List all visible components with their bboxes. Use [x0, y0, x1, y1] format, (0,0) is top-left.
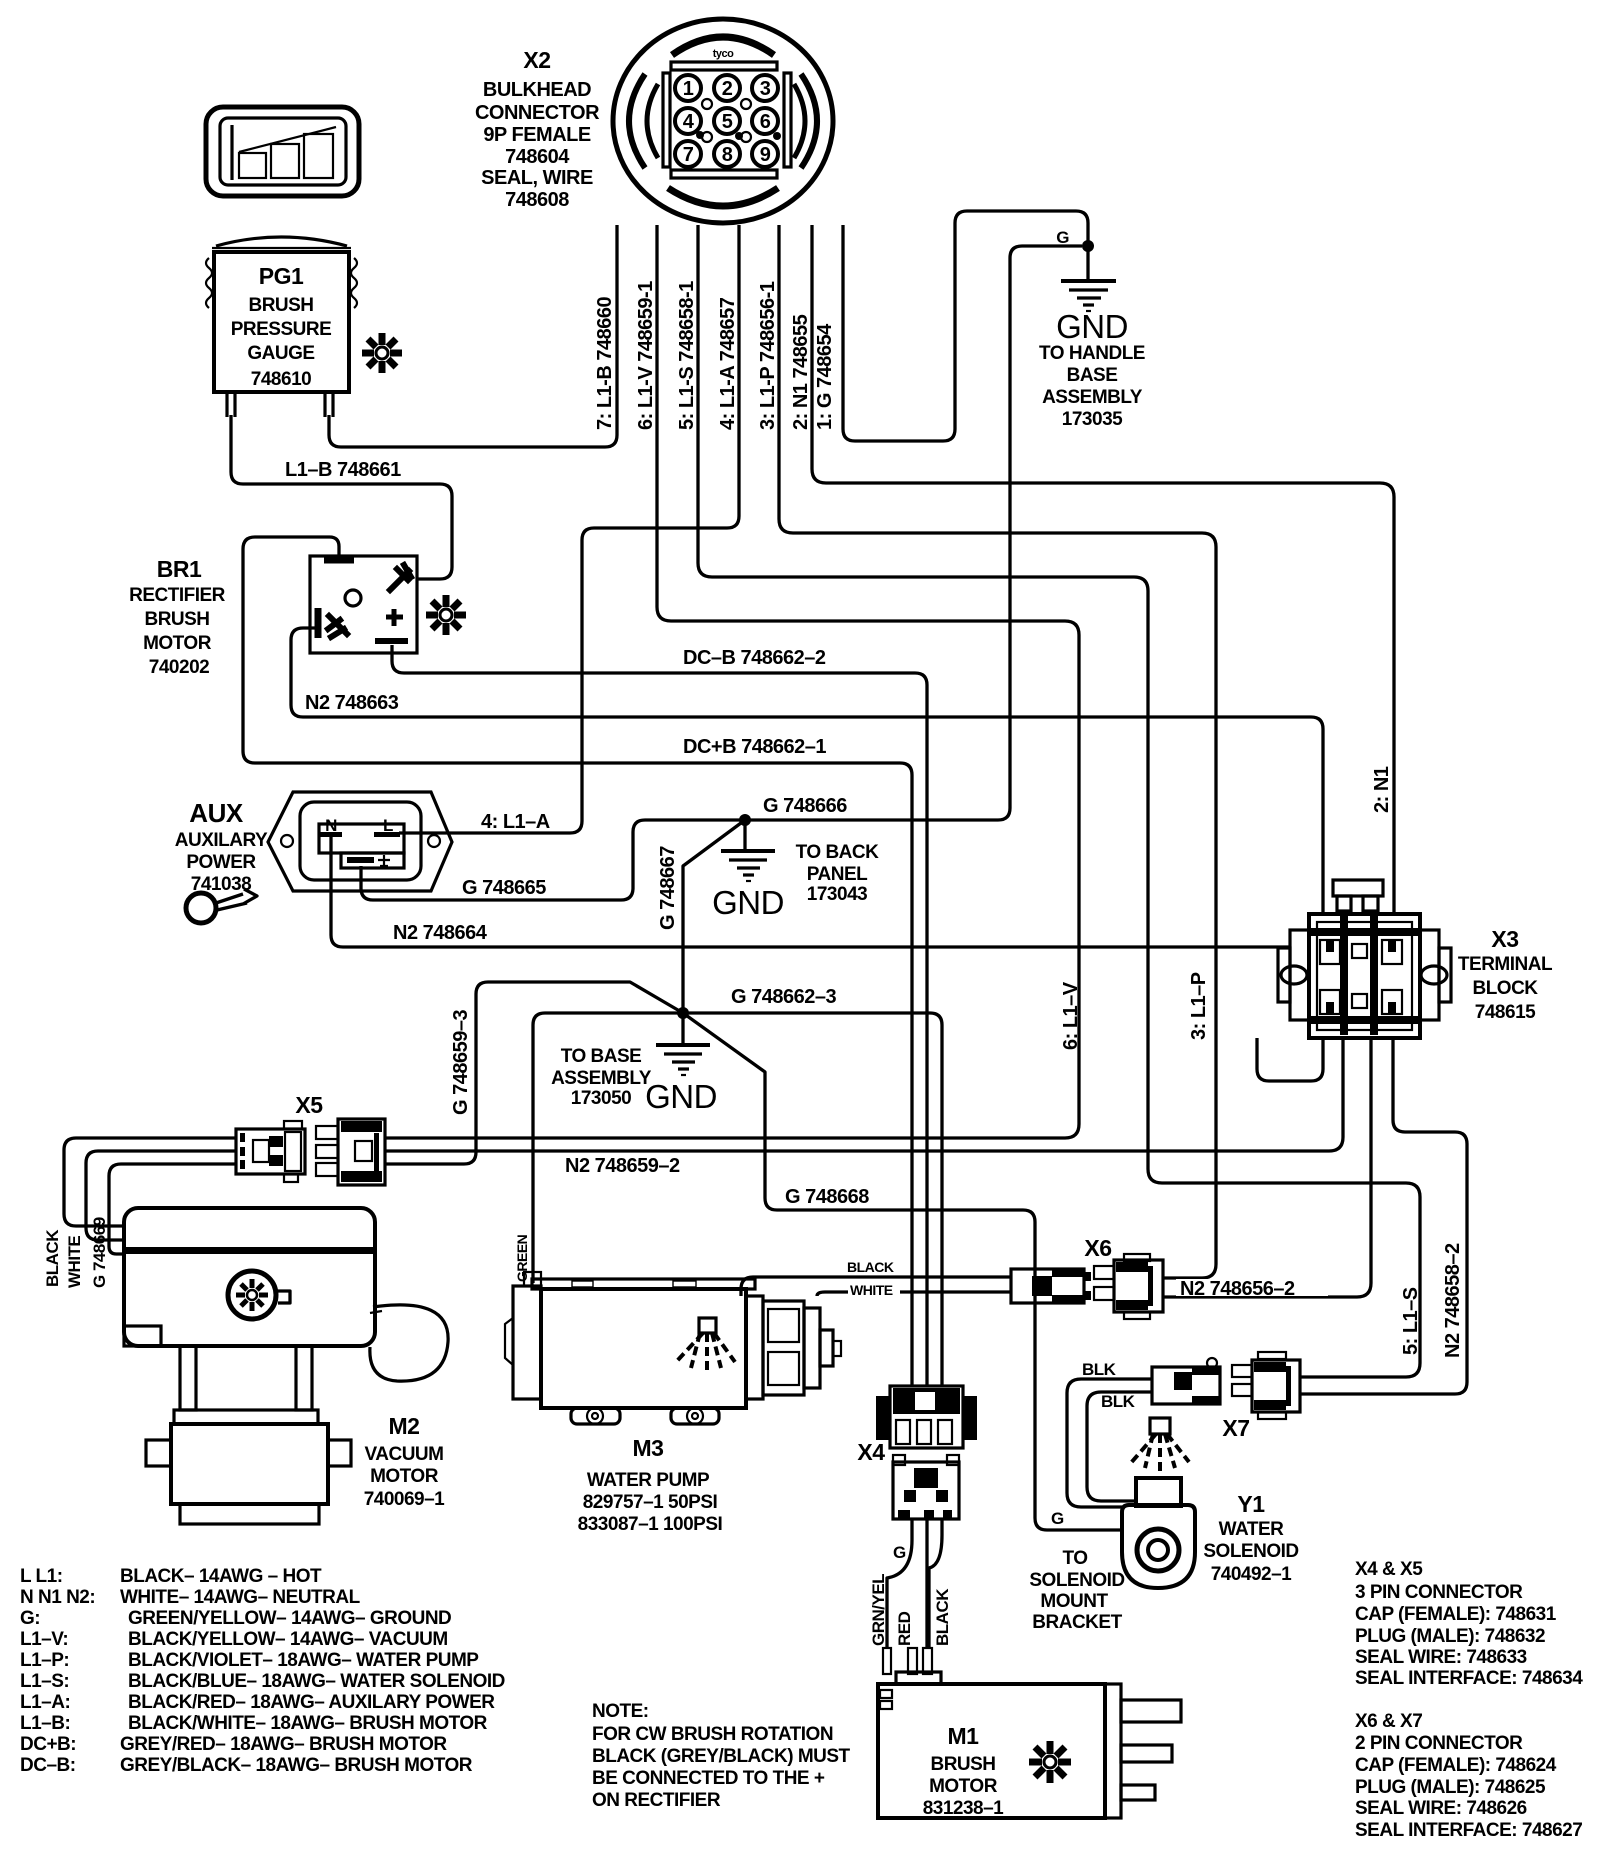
- svg-text:PLUG (MALE): 748625: PLUG (MALE): 748625: [1355, 1777, 1546, 1798]
- svg-text:N2 748663: N2 748663: [305, 692, 399, 714]
- svg-text:BLACK (GREY/BLACK) MUST: BLACK (GREY/BLACK) MUST: [592, 1746, 851, 1767]
- svg-text:3: L1–P: 3: L1–P: [1188, 972, 1210, 1040]
- svg-text:N2 748664: N2 748664: [393, 922, 488, 944]
- svg-text:BULKHEAD: BULKHEAD: [483, 79, 591, 101]
- connector X5 plug (male): [316, 1119, 385, 1185]
- svg-text:L1–A:: L1–A:: [20, 1692, 70, 1713]
- ground to base assembly: [551, 1013, 717, 1115]
- wire N2 748663 rectifier to X3: [291, 628, 1323, 914]
- connector X7 cap (female): [1152, 1358, 1250, 1441]
- node base assembly ground junction: [677, 1007, 689, 1019]
- ground to handle base assembly: [1039, 246, 1145, 430]
- wire G 748659-3 from X5 plug pin3 to base gnd junction: [385, 982, 683, 1164]
- pin 4 of X2: [675, 108, 701, 134]
- svg-text:ASSEMBLY: ASSEMBLY: [551, 1068, 652, 1089]
- svg-text:TO BASE: TO BASE: [561, 1046, 642, 1067]
- wire M2 green lead G 748669 to X5: [109, 1164, 236, 1254]
- svg-text:PG1: PG1: [259, 263, 304, 289]
- svg-text:VACUUM: VACUUM: [365, 1444, 444, 1465]
- pin 5 of X2: [714, 108, 740, 134]
- svg-text:SEAL, WIRE: SEAL, WIRE: [481, 167, 593, 189]
- svg-text:M2: M2: [389, 1413, 420, 1439]
- svg-text:BLACK/VIOLET– 18AWG– WATER: BLACK/VIOLET– 18AWG– WATER PUMP: [128, 1650, 479, 1671]
- svg-text:8: 8: [722, 144, 733, 166]
- svg-text:831238–1: 831238–1: [923, 1798, 1004, 1819]
- ring terminal icon: [186, 889, 257, 923]
- svg-text:6: L1–V: 6: L1–V: [1060, 981, 1082, 1050]
- wire jumper loop under X3: [1257, 1038, 1323, 1081]
- svg-text:DC+B 748662–1: DC+B 748662–1: [683, 736, 826, 758]
- svg-text:X3: X3: [1491, 926, 1518, 952]
- svg-text:7: 7: [683, 144, 694, 166]
- svg-text:SEAL WIRE: 748626: SEAL WIRE: 748626: [1355, 1798, 1527, 1819]
- svg-text:X5: X5: [295, 1092, 323, 1118]
- svg-text:WATER PUMP: WATER PUMP: [587, 1470, 710, 1491]
- svg-text:GND: GND: [645, 1078, 717, 1115]
- svg-text:6: 6: [760, 111, 771, 133]
- svg-text:G: G: [893, 1543, 906, 1562]
- pump M3 water pump: [505, 1272, 841, 1424]
- svg-text:GND: GND: [1056, 308, 1128, 345]
- star symbol beside PG1: [362, 333, 402, 373]
- svg-text:AUXILARY: AUXILARY: [175, 830, 268, 851]
- svg-text:N N1 N2:: N N1 N2:: [20, 1587, 95, 1608]
- svg-text:740069–1: 740069–1: [364, 1489, 445, 1510]
- connector X4 cap (female): [857, 1386, 977, 1465]
- wire G 748667 diagonal+vertical: [683, 820, 745, 1013]
- pin 1 of X2: [675, 75, 701, 101]
- svg-text:TERMINAL: TERMINAL: [1458, 954, 1553, 975]
- svg-text:MOTOR: MOTOR: [370, 1466, 439, 1487]
- svg-text:CAP (FEMALE): 748624: CAP (FEMALE): 748624: [1355, 1755, 1557, 1776]
- connector X7 plug (male): [1232, 1352, 1300, 1419]
- svg-text:BLACK: BLACK: [933, 1588, 952, 1646]
- svg-text:ON RECTIFIER: ON RECTIFIER: [592, 1790, 721, 1811]
- star symbol beside BR1: [426, 595, 466, 635]
- motor M1 brush motor: [878, 1648, 1181, 1818]
- svg-text:GREY/BLACK– 18AWG– BRUSH MO: GREY/BLACK– 18AWG– BRUSH MOTOR: [120, 1755, 473, 1776]
- legend wire color table: [20, 1566, 505, 1776]
- svg-text:M3: M3: [633, 1435, 664, 1461]
- wire 5: L1-S from X2 pin5 to X7 plug: [698, 225, 1420, 1377]
- pin 3 of X2: [752, 75, 778, 101]
- svg-text:SOLENOID: SOLENOID: [1203, 1541, 1298, 1562]
- svg-text:G 748666: G 748666: [763, 795, 847, 817]
- svg-text:NOTE:: NOTE:: [592, 1701, 649, 1722]
- svg-text:X4 & X5: X4 & X5: [1355, 1559, 1423, 1580]
- wire M2 white lead to X5: [86, 1151, 236, 1240]
- svg-text:TO: TO: [1062, 1548, 1087, 1569]
- svg-text:G 748668: G 748668: [785, 1186, 869, 1208]
- svg-text:G 748662–3: G 748662–3: [731, 986, 836, 1008]
- svg-text:748615: 748615: [1475, 1002, 1536, 1023]
- svg-text:5: 5: [722, 111, 733, 133]
- svg-text:BE CONNECTED TO THE +: BE CONNECTED TO THE +: [592, 1768, 825, 1789]
- svg-text:G 748669: G 748669: [90, 1217, 109, 1288]
- pin 6 of X2: [752, 108, 778, 134]
- wire 7: L1-B from X2 pin7 to PG1 right pin: [329, 225, 617, 447]
- ground to back panel: [712, 820, 879, 921]
- svg-text:GND: GND: [712, 884, 784, 921]
- svg-text:7: L1-B 748660: 7: L1-B 748660: [594, 297, 616, 430]
- terminal block X3: [1278, 880, 1451, 1038]
- junction dot G 748666: [739, 814, 751, 826]
- svg-text:CONNECTOR: CONNECTOR: [475, 102, 600, 124]
- svg-text:POWER: POWER: [186, 852, 256, 873]
- svg-text:CAP (FEMALE): 748631: CAP (FEMALE): 748631: [1355, 1604, 1557, 1625]
- motor M2 vacuum motor: [124, 1208, 448, 1524]
- wire 3: L1-P from X2 pin3 to X6 plug: [779, 225, 1216, 1278]
- wire BLK X7 to Y1 coil (inner): [1087, 1392, 1152, 1501]
- svg-text:MOTOR: MOTOR: [143, 633, 212, 654]
- svg-text:L1–S:: L1–S:: [20, 1671, 69, 1692]
- svg-text:SEAL INTERFACE: 748634: SEAL INTERFACE: 748634: [1355, 1668, 1583, 1689]
- svg-text:4: L1-A 748657: 4: L1-A 748657: [717, 297, 739, 430]
- svg-text:WHITE: WHITE: [65, 1236, 84, 1288]
- svg-text:TO BACK: TO BACK: [796, 842, 879, 863]
- svg-text:MOUNT: MOUNT: [1040, 1591, 1108, 1612]
- wire 6: L1-V from X2 pin6 to X5 plug pin1: [385, 225, 1079, 1138]
- svg-text:tyco: tyco: [713, 48, 734, 60]
- svg-text:2: N1 748655: 2: N1 748655: [790, 314, 812, 430]
- svg-text:748608: 748608: [505, 189, 569, 211]
- wire 1: G from X2 pin1 to handle GND junction: [843, 211, 1088, 441]
- svg-text:TO HANDLE: TO HANDLE: [1039, 343, 1145, 364]
- svg-text:PANEL: PANEL: [807, 864, 868, 885]
- svg-text:AUX: AUX: [189, 798, 244, 828]
- svg-text:BRUSH: BRUSH: [144, 609, 209, 630]
- svg-text:G:: G:: [20, 1608, 40, 1629]
- svg-text:GRN/YEL: GRN/YEL: [869, 1574, 888, 1646]
- svg-text:4: 4: [683, 111, 695, 133]
- wire N2 748664 AUX neutral to X3: [331, 837, 1290, 947]
- blower icon inside M2: [228, 1271, 290, 1319]
- svg-text:WATER: WATER: [1219, 1519, 1284, 1540]
- svg-text:M1: M1: [948, 1723, 980, 1749]
- svg-text:5: L1–S: 5: L1–S: [1400, 1287, 1422, 1355]
- svg-text:L1–P:: L1–P:: [20, 1650, 69, 1671]
- svg-text:748604: 748604: [505, 146, 570, 168]
- svg-text:BRUSH: BRUSH: [930, 1754, 995, 1775]
- svg-text:BLACK: BLACK: [847, 1259, 894, 1275]
- star symbol inside M1: [1029, 1741, 1071, 1783]
- svg-text:SEAL WIRE: 748633: SEAL WIRE: 748633: [1355, 1647, 1527, 1668]
- wire N2 748658-2 X3 to X7 plug: [1300, 1038, 1467, 1394]
- wire GRN/YEL X4 to M1: [887, 1519, 912, 1648]
- svg-text:N2 748656–2: N2 748656–2: [1180, 1278, 1295, 1300]
- wire G 748662-3 from M3 green lead to X4: [533, 1013, 942, 1386]
- svg-text:G: G: [1051, 1509, 1064, 1528]
- svg-text:GREEN/YELLOW– 14AWG– GROUND: GREEN/YELLOW– 14AWG– GROUND: [128, 1608, 451, 1629]
- svg-text:BLOCK: BLOCK: [1472, 978, 1538, 999]
- connector parts list X6 X7: [1355, 1711, 1582, 1841]
- connector X2 9P female face: [613, 19, 833, 223]
- svg-text:DC–B 748662–2: DC–B 748662–2: [683, 647, 826, 669]
- svg-text:G: G: [1056, 228, 1069, 247]
- svg-text:3 PIN CONNECTOR: 3 PIN CONNECTOR: [1355, 1582, 1523, 1603]
- gauge display icon: [206, 107, 359, 196]
- svg-text:X6: X6: [1084, 1235, 1111, 1261]
- svg-text:WHITE: WHITE: [850, 1282, 893, 1298]
- wire DC+B 748662-1 rectifier to X4: [243, 537, 912, 1386]
- X2 bulkhead connector label: [475, 47, 600, 211]
- svg-text:2 PIN CONNECTOR: 2 PIN CONNECTOR: [1355, 1733, 1523, 1754]
- svg-text:DC+B:: DC+B:: [20, 1734, 76, 1755]
- wire M3 white lead to X6: [817, 1292, 1011, 1296]
- connector X6 plug (male): [1094, 1254, 1163, 1319]
- wire N2 748659-2 X5 plug pin2 to X3: [385, 1038, 1343, 1151]
- pin 8 of X2: [714, 141, 740, 167]
- pin 7 of X2: [675, 141, 701, 167]
- svg-text:BRUSH: BRUSH: [248, 295, 313, 316]
- svg-text:FOR CW BRUSH ROTATION: FOR CW BRUSH ROTATION: [592, 1724, 833, 1745]
- svg-text:173050: 173050: [571, 1088, 631, 1109]
- svg-text:BLK: BLK: [1082, 1360, 1117, 1379]
- svg-text:GAUGE: GAUGE: [247, 343, 314, 364]
- pin 2 of X2: [714, 75, 740, 101]
- svg-text:GREEN: GREEN: [514, 1234, 530, 1282]
- svg-text:740202: 740202: [149, 657, 209, 678]
- svg-text:2: 2: [722, 78, 733, 100]
- node G junction at handle gnd: [1082, 240, 1094, 252]
- svg-text:173035: 173035: [1062, 409, 1123, 430]
- svg-text:X7: X7: [1222, 1415, 1249, 1441]
- svg-text:BLACK/WHITE– 18AWG– BRUSH M: BLACK/WHITE– 18AWG– BRUSH MOTOR: [128, 1713, 488, 1734]
- svg-text:X4: X4: [857, 1439, 885, 1465]
- svg-text:G 748665: G 748665: [462, 877, 546, 899]
- svg-text:DC–B:: DC–B:: [20, 1755, 76, 1776]
- wire N2 748656-2 X3 to X6 plug: [1163, 1038, 1371, 1297]
- svg-text:MOTOR: MOTOR: [929, 1776, 998, 1797]
- svg-text:G 748667: G 748667: [657, 846, 679, 930]
- svg-text:1: G 748654: 1: G 748654: [814, 323, 836, 430]
- svg-text:833087–1 100PSI: 833087–1 100PSI: [578, 1514, 723, 1535]
- wire BLK X7 to Y1 coil (outer): [1067, 1379, 1152, 1507]
- connector AUX auxiliary power inlet: [268, 792, 452, 891]
- svg-text:L1–B:: L1–B:: [20, 1713, 70, 1734]
- wire L1-B 748661 PG1 left pin to rectifier BR1: [231, 415, 452, 579]
- svg-text:3: 3: [760, 78, 771, 100]
- svg-text:GREY/RED– 18AWG– BRUSH MOTO: GREY/RED– 18AWG– BRUSH MOTOR: [120, 1734, 447, 1755]
- svg-text:RED: RED: [895, 1611, 914, 1646]
- svg-text:748610: 748610: [251, 369, 311, 390]
- svg-text:BLK: BLK: [1101, 1392, 1136, 1411]
- svg-text:BLACK– 14AWG – HOT: BLACK– 14AWG – HOT: [120, 1566, 322, 1587]
- rectifier BR1 brush motor: [310, 556, 417, 653]
- svg-text:BLACK/BLUE– 18AWG– WATER SO: BLACK/BLUE– 18AWG– WATER SOLENOID: [128, 1671, 505, 1692]
- svg-text:N2 748658–2: N2 748658–2: [1442, 1243, 1464, 1358]
- svg-text:X6 & X7: X6 & X7: [1355, 1711, 1422, 1732]
- svg-text:SEAL INTERFACE: 748627: SEAL INTERFACE: 748627: [1355, 1820, 1582, 1841]
- note CW brush rotation: [592, 1701, 851, 1811]
- wire M2 black lead to X5: [64, 1138, 236, 1226]
- svg-text:ASSEMBLY: ASSEMBLY: [1042, 387, 1143, 408]
- gauge PG1 brush pressure gauge: [206, 237, 357, 417]
- svg-text:Y1: Y1: [1237, 1491, 1265, 1517]
- wire G net from AUX ground pin to handle GND (G 748665 / G 748666): [361, 246, 1082, 900]
- wire RED X4 to M1: [925, 1519, 928, 1648]
- svg-text:L1–B 748661: L1–B 748661: [285, 459, 401, 481]
- svg-text:X2: X2: [523, 47, 550, 73]
- connector X4 plug (male): [893, 1455, 959, 1519]
- wire DC-B 748662-2 rectifier to X4: [392, 645, 927, 1386]
- svg-text:1: 1: [683, 78, 694, 100]
- svg-text:BLACK/YELLOW– 14AWG– VACUUM: BLACK/YELLOW– 14AWG– VACUUM: [128, 1629, 448, 1650]
- svg-text:BLACK: BLACK: [43, 1229, 62, 1287]
- wire BLACK X4 to M1: [929, 1519, 942, 1648]
- svg-text:PLUG (MALE): 748632: PLUG (MALE): 748632: [1355, 1626, 1545, 1647]
- svg-text:N2 748659–2: N2 748659–2: [565, 1155, 680, 1177]
- svg-text:4: L1–A: 4: L1–A: [481, 811, 550, 833]
- svg-text:6: L1-V 748659-1: 6: L1-V 748659-1: [635, 281, 657, 430]
- svg-text:BR1: BR1: [157, 556, 202, 582]
- svg-text:173043: 173043: [807, 884, 867, 905]
- connector X5 cap (female): [236, 1092, 323, 1182]
- connector X6 cap (female): [1011, 1235, 1112, 1303]
- svg-text:L L1:: L L1:: [20, 1566, 63, 1587]
- svg-text:3: L1-P 748656-1: 3: L1-P 748656-1: [757, 281, 779, 430]
- pin 9 of X2: [752, 141, 778, 167]
- svg-text:9: 9: [760, 144, 771, 166]
- svg-text:RECTIFIER: RECTIFIER: [129, 585, 226, 606]
- svg-text:BRACKET: BRACKET: [1032, 1612, 1122, 1633]
- svg-text:WHITE– 14AWG– NEUTRAL: WHITE– 14AWG– NEUTRAL: [120, 1587, 361, 1608]
- svg-text:G 748659–3: G 748659–3: [450, 1010, 472, 1115]
- svg-text:829757–1 50PSI: 829757–1 50PSI: [583, 1492, 718, 1513]
- svg-text:5: L1-S 748658-1: 5: L1-S 748658-1: [676, 281, 698, 430]
- svg-text:SOLENOID: SOLENOID: [1029, 1570, 1124, 1591]
- wire 2: N1 from X2 pin2 to X3 terminal block: [812, 225, 1394, 914]
- solenoid Y1 water solenoid: [1122, 1418, 1195, 1588]
- svg-text:9P FEMALE: 9P FEMALE: [483, 124, 591, 146]
- wire G 748668 from base gnd junction to Y1: [683, 1013, 1122, 1530]
- svg-text:2: N1: 2: N1: [1371, 766, 1393, 813]
- svg-text:PRESSURE: PRESSURE: [231, 319, 332, 340]
- spray icon inside M3: [676, 1318, 735, 1372]
- svg-text:740492–1: 740492–1: [1211, 1564, 1292, 1585]
- wire M3 black lead to X6: [741, 1277, 1011, 1296]
- wire 4: L1-A from X2 pin4 to AUX L terminal: [399, 225, 739, 833]
- svg-text:BLACK/RED– 18AWG– AUXILARY: BLACK/RED– 18AWG– AUXILARY POWER: [128, 1692, 495, 1713]
- connector parts list X4 X5: [1355, 1559, 1583, 1689]
- svg-text:BASE: BASE: [1067, 365, 1118, 386]
- svg-text:L1–V:: L1–V:: [20, 1629, 68, 1650]
